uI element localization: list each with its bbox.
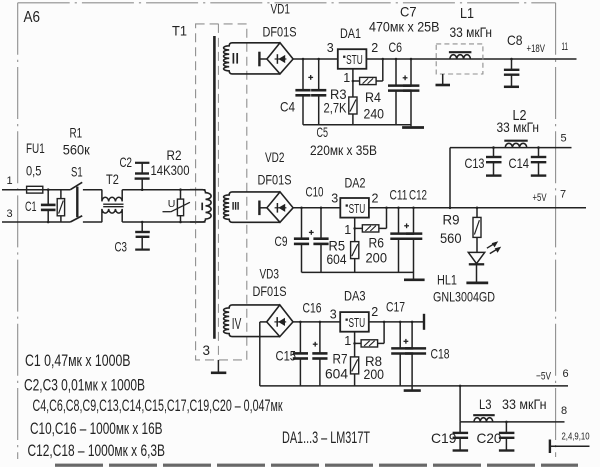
capacitor C4 (295, 58, 310, 125)
screen terminal 3 (Э) (203, 343, 211, 358)
capacitor C9 (294, 207, 309, 273)
capacitor C5 (electrolytic) (311, 58, 326, 125)
svg-text:604: 604 (327, 251, 347, 267)
svg-text:+5V: +5V (533, 192, 547, 204)
svg-text:1: 1 (344, 334, 351, 348)
label R3 (330, 86, 347, 102)
wire L3 row (pin 8) (460, 421, 564, 423)
varistor R2 (163, 188, 190, 223)
capacitor C15 (293, 321, 308, 386)
svg-text:2: 2 (371, 305, 378, 319)
capacitor C14 (with chassis bar) (531, 146, 547, 175)
label I (primary) (201, 203, 203, 211)
capacitor C8 (with chassis bar) (504, 58, 520, 87)
ground (HL1 chassis bar) (466, 282, 488, 285)
note line 2 (24, 376, 145, 394)
label C3 (115, 239, 128, 255)
frame border left (dash-dot) (17, 3, 19, 459)
transformer T1 winding II (224, 43, 280, 74)
label C1 (25, 198, 37, 214)
wire DA2 pin1 down (353, 218, 356, 242)
wire pins 2,4,9,10 (551, 445, 590, 447)
ground (T1 screen chassis) (211, 360, 226, 373)
value 604 (R7) (325, 365, 348, 381)
svg-text:R4: R4 (365, 89, 381, 105)
LED HL1 (468, 252, 484, 281)
resistor R9 (473, 207, 481, 253)
polarity + (C18) (404, 339, 409, 344)
wire DA2 output (+5V) (369, 207, 586, 209)
label VD1 (271, 0, 291, 16)
wire common rail section 2 (302, 271, 414, 273)
label DF01S (VD3) (253, 283, 287, 299)
transformer T1 core (213, 36, 216, 339)
svg-text:2: 2 (372, 191, 379, 205)
wire VD2 output (293, 207, 340, 209)
capacitor C12 (electrolytic) (406, 207, 422, 280)
label C9 (275, 233, 288, 249)
svg-text:STU: STU (349, 202, 366, 216)
node 7 (output pin) (560, 188, 566, 200)
pin 1 (DA1) (343, 71, 350, 85)
capacitor C7 (electrolytic) (403, 58, 419, 127)
op-amp DA1 (regulator) (338, 49, 367, 69)
note line 5 (28, 442, 166, 460)
svg-text:3: 3 (203, 343, 211, 358)
svg-text:C11: C11 (390, 187, 408, 203)
label T1 (172, 23, 187, 39)
wire T2 to primary top (122, 189, 205, 191)
label C19 (431, 430, 457, 446)
svg-text:−5V: −5V (536, 370, 551, 382)
transformer T1 screen (dashed line) (217, 24, 219, 360)
label R7 (333, 350, 348, 366)
label III (233, 202, 238, 210)
node 8 (output pin) (561, 405, 567, 417)
value GNL3004GD (HL1) (433, 288, 495, 304)
svg-text:7: 7 (560, 188, 566, 200)
svg-text:C5: C5 (317, 124, 329, 140)
svg-text:VD3: VD3 (260, 266, 280, 282)
wire VD1 output (293, 58, 338, 60)
wire -5V rail (pin 6) (260, 385, 568, 387)
pin 2 (DA1) (371, 41, 378, 55)
svg-text:R6: R6 (369, 235, 385, 251)
polarity + (C16) (313, 342, 318, 347)
wire R8 to output (383, 321, 386, 344)
polarity + (C5) (308, 75, 313, 80)
pin 3 (DA3) (330, 307, 337, 321)
value 0,5 (FU1) (26, 162, 42, 178)
pin 1 (DA3) (344, 334, 351, 348)
svg-text:R7: R7 (333, 350, 348, 366)
capacitor C17 (391, 321, 413, 386)
svg-text:A6: A6 (24, 9, 41, 26)
label C18 (431, 346, 450, 362)
svg-text:STU: STU (346, 53, 363, 67)
frame border right (dash-dot) (555, 3, 557, 457)
label C6 (389, 39, 403, 55)
svg-text:T1: T1 (172, 23, 187, 39)
resistor R8 (355, 340, 385, 347)
capacitor C6 (388, 58, 412, 125)
value 560 (R9) (440, 230, 462, 246)
transformer T1 winding III (224, 192, 280, 222)
node 1 (input terminal) (7, 175, 13, 187)
wire R4 to output (382, 58, 385, 81)
svg-text:C1: C1 (25, 198, 37, 214)
svg-text:DF01S: DF01S (263, 24, 297, 40)
label C20 (477, 430, 502, 446)
svg-text:1: 1 (343, 71, 350, 85)
svg-text:DA1...3 – LM317T: DA1...3 – LM317T (282, 429, 370, 447)
svg-text:C12: C12 (409, 187, 427, 203)
svg-text:C19: C19 (431, 430, 457, 446)
bridge rectifier VD2 (259, 192, 293, 222)
wire common rail section 1 (303, 124, 411, 126)
label A6 (24, 9, 41, 26)
wire S1 to T2 bottom (83, 221, 102, 223)
inductor L1 shield box (dashed) (436, 44, 483, 74)
wire T2 to primary bottom (122, 221, 205, 223)
label R5 (329, 237, 346, 253)
label R9 (443, 212, 460, 228)
svg-text:3: 3 (327, 41, 334, 55)
svg-text:L1: L1 (460, 6, 474, 22)
svg-text:C20: C20 (477, 430, 502, 446)
pin 1 (DA2) (344, 223, 351, 237)
svg-text:DF01S: DF01S (258, 172, 292, 188)
svg-text:FU1: FU1 (26, 140, 45, 156)
label DF01S (VD2) (258, 172, 292, 188)
svg-text:C15: C15 (276, 347, 297, 363)
bridge rectifier VD3 (260, 305, 293, 337)
value 604 (R5) (327, 251, 347, 267)
svg-text:C16: C16 (303, 300, 322, 316)
inductor L2 (505, 143, 526, 147)
label VD3 (260, 266, 280, 282)
svg-text:R1: R1 (70, 125, 83, 141)
svg-text:GNL3004GD: GNL3004GD (433, 288, 495, 304)
capacitor C3 (with chassis bar) (135, 221, 150, 250)
pin 3 (DA1) (327, 41, 334, 55)
label L2 (513, 108, 527, 124)
polarity + (C7) (403, 75, 408, 80)
resistor R3 (349, 97, 357, 125)
ground (L1 shield) (436, 74, 451, 85)
svg-text:33 мкГн: 33 мкГн (497, 119, 540, 135)
svg-text:DA2: DA2 (345, 174, 366, 190)
svg-text:S1: S1 (71, 163, 83, 179)
svg-text:DA3: DA3 (344, 288, 366, 304)
op-amp DA3 (regulator) (340, 312, 369, 332)
note DA1...3 - LM317T (282, 429, 370, 447)
svg-text:560к: 560к (63, 142, 91, 158)
frame border top (dash-dot) (18, 2, 556, 4)
value 14K300 (R2) (151, 162, 190, 178)
inductor L3 (474, 418, 493, 422)
capacitor C10 (electrolytic) (313, 207, 328, 273)
label R8 (365, 353, 382, 369)
svg-text:T2: T2 (106, 171, 119, 187)
label R1 (70, 125, 83, 141)
inductor L3 core (473, 414, 495, 416)
svg-text:STU: STU (349, 316, 366, 330)
bottom strip (scan artifact) (55, 464, 578, 467)
svg-text:1: 1 (344, 223, 351, 237)
node 11 (output pin) (562, 41, 569, 53)
wire DA3 output (369, 321, 423, 323)
node 3 (input terminal) (7, 208, 13, 220)
svg-text:HL1: HL1 (437, 272, 457, 288)
pin 2 (DA2) (372, 191, 379, 205)
net +18V (527, 43, 546, 55)
svg-text:3: 3 (330, 307, 337, 321)
op-amp DA2 (regulator) (340, 198, 369, 218)
svg-text:C4,C6,C8,C9,C13,C14,C15,C17,C1: C4,C6,C8,C9,C13,C14,C15,C17,C19,C20 – 0,… (33, 397, 284, 415)
svg-text:604: 604 (325, 365, 348, 381)
value 560к (R1) (63, 142, 91, 158)
value 200 (R6) (366, 250, 388, 266)
wire DA1 pin1 down (352, 69, 355, 97)
bridge rectifier VD1 (259, 43, 293, 74)
value 2,7K (R3) (324, 100, 348, 116)
ground (C12 chassis bar) (404, 278, 425, 281)
inductor L2 core (504, 140, 527, 142)
value 220мк x 35В (C5) (310, 142, 377, 158)
LED arrows (HL1) (487, 241, 501, 253)
net +5V (533, 192, 547, 204)
wire VD3 minus down to -5V rail (259, 322, 261, 386)
note line 3 (33, 397, 284, 415)
svg-text:C8: C8 (507, 32, 523, 48)
label S1 (71, 163, 83, 179)
svg-text:C10,C16 – 1000мк x 16В: C10,C16 – 1000мк x 16В (30, 420, 163, 438)
label C15 (276, 347, 297, 363)
svg-text:11: 11 (562, 41, 569, 53)
wire input top (2, 189, 70, 191)
svg-text:R9: R9 (443, 212, 460, 228)
resistor R4 (353, 77, 383, 84)
svg-text:470мк x 25В: 470мк x 25В (369, 18, 440, 34)
label II (233, 53, 237, 64)
svg-text:3: 3 (331, 191, 338, 205)
node 6 (output pin) (563, 368, 569, 380)
label DA1 (340, 25, 361, 41)
ground (C18 chassis bar) (404, 389, 421, 392)
value 33 мкГн (L3) (502, 396, 547, 412)
svg-text:C12,C18 – 1000мк x 6,3В: C12,C18 – 1000мк x 6,3В (28, 442, 166, 460)
capacitor C13 (with chassis bar) (486, 146, 502, 175)
label C11 (390, 187, 408, 203)
node 2,4,9,10 (output pins) (562, 430, 590, 442)
pin 2 (DA3) (371, 305, 378, 319)
label C17 (386, 298, 405, 314)
svg-text:U: U (168, 198, 176, 210)
transformer T2 bottom winding (102, 209, 122, 222)
svg-text:0,5: 0,5 (26, 162, 42, 178)
svg-text:220мк x 35В: 220мк x 35В (310, 142, 377, 158)
svg-text:200: 200 (366, 250, 388, 266)
capacitor C16 (electrolytic) (312, 321, 327, 386)
svg-text:2,4,9,10: 2,4,9,10 (562, 430, 590, 442)
label C14 (509, 155, 530, 171)
svg-text:33 мкГн: 33 мкГн (502, 396, 547, 412)
svg-text:C6: C6 (389, 39, 403, 55)
polarity + (C10) (309, 230, 314, 235)
svg-text:14K300: 14K300 (151, 162, 190, 178)
svg-text:C10: C10 (306, 184, 324, 200)
svg-text:C2: C2 (120, 154, 133, 170)
note line 4 (30, 420, 163, 438)
wire DA3 pin1 down (353, 332, 356, 357)
label C7 (400, 3, 417, 19)
resistor R7 (351, 357, 359, 386)
label HL1 (437, 272, 457, 288)
polarity + (C12) (404, 223, 409, 228)
label C16 (303, 300, 322, 316)
svg-text:L3: L3 (479, 396, 492, 412)
svg-text:6: 6 (563, 368, 569, 380)
label C5 (317, 124, 329, 140)
wire S1 to T2 top (83, 189, 102, 191)
label C4 (280, 99, 295, 115)
value 33 мкГн (L2) (497, 119, 540, 135)
inductor L1 (450, 55, 471, 59)
svg-text:2: 2 (371, 41, 378, 55)
transformer T1 primary winding I (190, 190, 211, 222)
capacitor C19 (with chassis bar) (453, 422, 469, 451)
transformer T2 core (103, 204, 123, 207)
resistor R5 (351, 242, 359, 273)
svg-text:DF01S: DF01S (253, 283, 287, 299)
svg-text:C3: C3 (115, 239, 128, 255)
wire R6 to output (385, 207, 388, 229)
wire branch up to L2 (449, 148, 452, 210)
svg-text:200: 200 (364, 366, 385, 382)
label VD2 (265, 149, 285, 165)
wire VD3 output (293, 321, 340, 323)
label C8 (507, 32, 523, 48)
svg-text:VD1: VD1 (271, 0, 291, 16)
svg-text:+18V: +18V (527, 43, 546, 55)
wire DA1 output (+18V rail) (366, 58, 576, 60)
svg-text:C2,C3 0,01мк x 1000В: C2,C3 0,01мк x 1000В (24, 376, 145, 394)
svg-text:2,7K: 2,7K (324, 100, 348, 116)
wire branch down to L3 (459, 385, 462, 422)
fuse FU1 (27, 186, 43, 193)
label C2 (120, 154, 133, 170)
capacitor C1 (41, 188, 56, 223)
label C10 (306, 184, 324, 200)
svg-text:C13: C13 (465, 155, 485, 171)
svg-text:C1 0,47мк x 1000В: C1 0,47мк x 1000В (25, 352, 131, 370)
svg-text:240: 240 (364, 106, 385, 122)
svg-text:560: 560 (440, 230, 462, 246)
svg-text:C17: C17 (386, 298, 405, 314)
label C12 (409, 187, 427, 203)
label R2 (167, 147, 182, 163)
svg-text:C14: C14 (509, 155, 530, 171)
transformer T2 top winding (102, 190, 122, 202)
svg-text:VD2: VD2 (265, 149, 285, 165)
label R6 (369, 235, 385, 251)
svg-text:IV: IV (232, 316, 242, 333)
resistor R1 (57, 190, 64, 222)
terminal bar (DA3 output) (423, 314, 425, 330)
capacitor C11 (390, 207, 414, 273)
label C13 (465, 155, 485, 171)
note line 1 (25, 352, 131, 370)
label L3 (479, 396, 492, 412)
svg-text:3: 3 (7, 208, 13, 220)
capacitor C2 (with chassis bar) (135, 163, 150, 191)
wire L2 row (pin 5) (450, 147, 572, 149)
transformer T1 shield box (dashed) (196, 24, 247, 360)
capacitor C18 (electrolytic) (405, 321, 426, 390)
net -5V (536, 370, 551, 382)
terminal bar (pins 2,4,9,10) (549, 440, 551, 454)
label DA3 (344, 288, 366, 304)
value 240 (R4) (364, 106, 385, 122)
label DF01S (VD1) (263, 24, 297, 40)
label T2 (106, 171, 119, 187)
svg-text:5: 5 (561, 132, 567, 144)
svg-text:C7: C7 (400, 3, 417, 19)
svg-text:C9: C9 (275, 233, 288, 249)
capacitor C20 (with chassis bar) (499, 421, 515, 451)
label U (varistor) (168, 198, 176, 210)
pin 3 (DA2) (331, 191, 338, 205)
ground (C7 chassis bar) (402, 126, 424, 129)
node 5 (output pin) (561, 132, 567, 144)
value 470мк x 25В (C7) (369, 18, 440, 34)
label DA2 (345, 174, 366, 190)
label FU1 (26, 140, 45, 156)
label R4 (365, 89, 381, 105)
label IV (232, 316, 242, 333)
svg-text:1: 1 (7, 175, 13, 187)
svg-text:C4: C4 (280, 99, 295, 115)
value 200 (R8) (364, 366, 385, 382)
label L1 (460, 6, 474, 22)
resistor R6 (355, 225, 387, 232)
value 33 мкГн (L1) (450, 24, 493, 40)
wire input bottom (2, 221, 70, 223)
svg-text:8: 8 (561, 405, 567, 417)
switch S1 (70, 182, 82, 222)
svg-text:R2: R2 (167, 147, 182, 163)
svg-text:DA1: DA1 (340, 25, 361, 41)
svg-text:33 мкГн: 33 мкГн (450, 24, 493, 40)
svg-text:C18: C18 (431, 346, 450, 362)
inductor L1 core (449, 51, 472, 53)
transformer T1 winding IV (224, 305, 280, 337)
